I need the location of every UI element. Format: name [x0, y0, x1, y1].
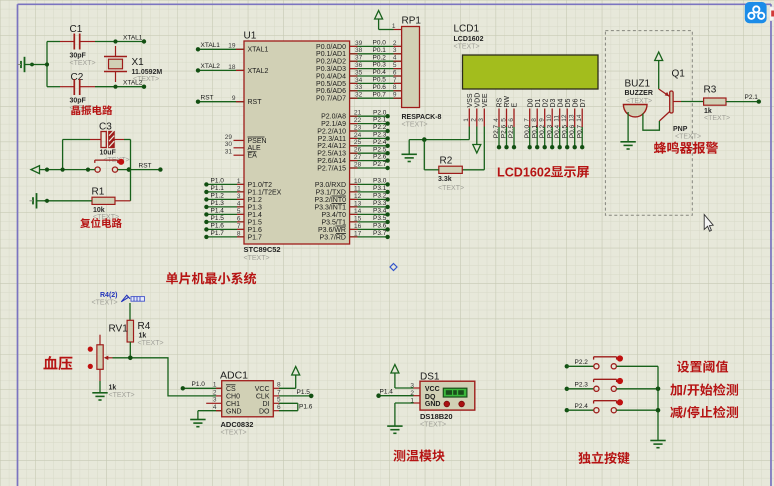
svg-text:15: 15: [354, 215, 362, 222]
svg-text:XTAL1: XTAL1: [248, 47, 269, 54]
svg-text:D2: D2: [542, 98, 549, 107]
LCD pin 1 VSS: [463, 93, 474, 126]
svg-text:DQ: DQ: [425, 394, 436, 401]
potentiometer RV1: [88, 324, 135, 399]
svg-text:D7: D7: [580, 98, 587, 107]
svg-text:P0.5: P0.5: [373, 77, 387, 84]
svg-text:RESPACK-8: RESPACK-8: [402, 114, 442, 121]
svg-text:P3.0/RXD: P3.0/RXD: [315, 182, 346, 189]
ground buzzer: [620, 142, 635, 149]
svg-text:9: 9: [393, 92, 397, 99]
wire VEE to R2: [462, 127, 484, 170]
svg-text:39: 39: [355, 40, 363, 47]
svg-text:RS: RS: [497, 97, 504, 107]
svg-text:P2.5: P2.5: [373, 146, 387, 153]
svg-text:P3.3: P3.3: [373, 200, 387, 207]
svg-text:14: 14: [354, 208, 362, 215]
svg-text:P1.3: P1.3: [211, 200, 225, 207]
svg-text:D4: D4: [557, 98, 564, 107]
svg-text:10uF: 10uF: [100, 150, 117, 157]
svg-text:P1.7: P1.7: [248, 234, 263, 241]
wire probe to R4: [129, 303, 131, 320]
svg-text:1: 1: [237, 178, 241, 185]
resistor pack RP1: [392, 16, 442, 129]
svg-text:/: /: [683, 383, 687, 398]
ground buttons: [650, 441, 665, 448]
svg-text:26: 26: [354, 147, 362, 154]
svg-text:P2.2: P2.2: [575, 359, 589, 366]
svg-text:P0.1: P0.1: [373, 47, 387, 54]
svg-text:P1.2: P1.2: [248, 197, 263, 204]
svg-text:XTAL1: XTAL1: [123, 35, 143, 42]
wire XTAL1 to U1 pin 19: [196, 42, 269, 54]
LCD pin 11 D4: [554, 98, 565, 149]
svg-text:P0.4: P0.4: [373, 69, 387, 76]
svg-text:ALE: ALE: [248, 145, 262, 152]
wire P1.3 to U1 pin 4: [204, 200, 262, 211]
svg-text:P3.5: P3.5: [373, 215, 387, 222]
svg-text:STC89C52: STC89C52: [244, 245, 281, 254]
wire P1.7 to U1 pin 8: [204, 230, 262, 241]
wire XTAL1 net: [47, 41, 144, 43]
svg-text:P0.3: P0.3: [546, 124, 553, 138]
svg-text:DS18B20: DS18B20: [420, 412, 453, 421]
dashed region buzzer: [605, 31, 692, 216]
wire P0.6 U1 pin 33 to RP1 pin 8: [316, 84, 402, 95]
svg-text:P3.7: P3.7: [373, 230, 387, 237]
svg-text:P0.2: P0.2: [373, 54, 387, 61]
svg-text:D1: D1: [535, 98, 542, 107]
svg-text:3: 3: [213, 397, 217, 404]
wire P3.1 U1 pin 11: [316, 185, 390, 196]
svg-text:XTAL2: XTAL2: [201, 63, 221, 70]
svg-text:P3.7/RD: P3.7/RD: [320, 234, 346, 241]
svg-text:D6: D6: [572, 98, 579, 107]
svg-text:12: 12: [354, 193, 362, 200]
DS18B20 buttons: [444, 401, 464, 407]
op-amp LCD1 LCD1602: [454, 24, 484, 51]
caption MCU minimal system: [166, 272, 256, 284]
LCD pin 13 D6: [569, 98, 580, 149]
svg-text:P2.0: P2.0: [373, 109, 387, 116]
svg-text:27: 27: [354, 154, 362, 161]
svg-text:P2.4: P2.4: [373, 139, 387, 146]
svg-text:P0.6/AD6: P0.6/AD6: [316, 88, 346, 95]
wire RV1 wiper to ADC CH0: [113, 356, 217, 396]
svg-text:LCD1602: LCD1602: [497, 166, 551, 180]
svg-text:33: 33: [355, 84, 363, 91]
svg-text:P2.1: P2.1: [373, 117, 387, 124]
svg-text:D0: D0: [527, 98, 534, 107]
svg-text:RW: RW: [504, 96, 511, 108]
ground terminal reset: [30, 193, 46, 208]
wire XTAL2 net: [47, 86, 144, 88]
caption buzzer alarm: [654, 142, 718, 154]
svg-text:EA: EA: [248, 153, 258, 160]
svg-text:RST: RST: [201, 95, 214, 102]
svg-text:9: 9: [232, 95, 236, 102]
svg-text:D3: D3: [550, 98, 557, 107]
svg-text:P1.6: P1.6: [248, 227, 263, 234]
wire P0.4 U1 pin 35 to RP1 pin 6: [316, 69, 402, 80]
wire P2.2 U1 pin 23: [317, 124, 390, 135]
node XTAL2: [113, 80, 146, 89]
svg-text:P1.1/T2EX: P1.1/T2EX: [248, 189, 282, 196]
svg-text:P3.1/TXD: P3.1/TXD: [316, 189, 346, 196]
svg-text:1k: 1k: [704, 108, 712, 115]
svg-text:30: 30: [225, 141, 233, 148]
svg-text:P2.3/A11: P2.3/A11: [318, 136, 346, 143]
LCD pin 6 E: [508, 103, 519, 150]
svg-text:DO: DO: [259, 408, 270, 415]
svg-text:11: 11: [354, 185, 361, 192]
svg-text:R4: R4: [138, 321, 151, 332]
svg-text:P2.0/A8: P2.0/A8: [321, 114, 346, 121]
ground LCD VSS: [402, 154, 417, 161]
mouse cursor: [704, 215, 713, 232]
power arrow buzzer: [655, 52, 663, 89]
svg-text:P2.1/A9: P2.1/A9: [321, 121, 346, 128]
svg-text:U1: U1: [244, 31, 257, 42]
wire RST to U1 pin 9: [196, 95, 262, 107]
wire ADC GND to ground: [198, 411, 222, 420]
caption crystal circuit: [71, 105, 112, 115]
svg-text:PNP: PNP: [673, 126, 688, 133]
svg-text:XTAL2: XTAL2: [248, 68, 269, 75]
svg-text:P2.2: P2.2: [373, 124, 387, 131]
svg-text:RV1: RV1: [109, 324, 129, 335]
svg-text:VCC: VCC: [255, 386, 270, 393]
wire P3.5 U1 pin 15: [321, 215, 389, 226]
wire R1 row: [44, 170, 131, 203]
svg-text:P2.6/A14: P2.6/A14: [317, 158, 346, 165]
svg-text:P0.4: P0.4: [554, 124, 561, 138]
ground terminal crystal: [18, 57, 34, 72]
LCD pin 5 RW: [500, 96, 511, 150]
caption LCD1602 display: [497, 166, 589, 180]
svg-text:P2.7: P2.7: [493, 124, 500, 138]
svg-text:RP1: RP1: [402, 16, 422, 27]
LCD pin 7 D0: [524, 98, 535, 149]
wire ADC VCC to power: [273, 375, 295, 388]
svg-text:31: 31: [225, 149, 233, 156]
svg-text:4: 4: [393, 55, 397, 62]
svg-text:21: 21: [354, 110, 362, 117]
wire P1.6 to U1 pin 7: [204, 222, 262, 233]
svg-text:P1.1: P1.1: [211, 185, 225, 192]
svg-text:P0.0: P0.0: [373, 40, 387, 47]
svg-text:5: 5: [237, 208, 241, 215]
caption blood pressure: [43, 356, 72, 370]
svg-text:<TEXT>: <TEXT>: [244, 255, 270, 262]
svg-text:P3.0: P3.0: [373, 178, 387, 185]
svg-text:LCD1602: LCD1602: [454, 36, 484, 43]
caption set threshold: [677, 360, 728, 372]
svg-text:P0.1/AD1: P0.1/AD1: [316, 51, 346, 58]
svg-text:P3.1: P3.1: [373, 185, 387, 192]
wire P1.5 to U1 pin 6: [204, 215, 262, 226]
svg-text:2: 2: [393, 40, 397, 47]
power arrow DS18B20: [391, 365, 399, 374]
svg-text:30pF: 30pF: [70, 53, 87, 60]
svg-text:CH0: CH0: [226, 394, 240, 401]
svg-text:VDD: VDD: [474, 93, 481, 108]
svg-text:30pF: 30pF: [70, 98, 87, 105]
wire P0.2 U1 pin 37 to RP1 pin 4: [316, 54, 402, 65]
LCD pin 14 D7: [576, 98, 587, 149]
svg-text:P3.6/WR: P3.6/WR: [318, 227, 346, 234]
svg-text:P2.6: P2.6: [501, 124, 508, 138]
svg-text:11.0592M: 11.0592M: [132, 69, 163, 76]
LCD pin 3 VEE: [478, 93, 489, 126]
wire P1.0 to U1 pin 1: [204, 177, 272, 188]
wire VSS to ground: [409, 127, 469, 155]
wire P2.7 U1 pin 28: [317, 161, 390, 172]
svg-text:RST: RST: [248, 99, 263, 106]
svg-text:P0.5/AD5: P0.5/AD5: [316, 81, 346, 88]
svg-text:3: 3: [393, 47, 397, 54]
wire P1.4 to DS DQ: [376, 389, 420, 398]
svg-text:P1.0: P1.0: [211, 177, 225, 184]
LCD pin 8 D1: [531, 98, 542, 149]
resistor R4: [127, 320, 163, 358]
svg-text:P3.3/INT1: P3.3/INT1: [314, 204, 346, 211]
pin ALE U1 pin 30: [225, 141, 261, 152]
svg-text:R3: R3: [704, 85, 717, 96]
wire P2.0 U1 pin 21: [321, 109, 390, 120]
svg-text:ADC1: ADC1: [220, 370, 248, 382]
power VCC arrow RP1: [375, 11, 394, 30]
svg-text:P0.0/AD0: P0.0/AD0: [316, 44, 346, 51]
svg-text:1k: 1k: [109, 385, 117, 392]
svg-text:XTAL2: XTAL2: [123, 80, 143, 87]
button P2.2: [565, 355, 658, 369]
pin ADC CH0: [216, 395, 222, 397]
svg-text:GND: GND: [226, 408, 242, 415]
svg-text:P2.2/A10: P2.2/A10: [317, 128, 346, 135]
svg-text:PSEN: PSEN: [248, 138, 267, 145]
probe R4(2): [92, 292, 145, 307]
wire P2.5 U1 pin 26: [317, 146, 390, 157]
svg-text:P0.7/AD7: P0.7/AD7: [316, 96, 346, 103]
svg-text:1: 1: [392, 23, 396, 30]
wire P1.2 to U1 pin 3: [204, 192, 262, 203]
resistor R1: [92, 187, 131, 222]
transistor Q1 PNP: [659, 69, 701, 141]
LCD pin 2 VDD: [471, 93, 482, 127]
svg-text:1k: 1k: [139, 333, 147, 340]
svg-text:38: 38: [355, 47, 363, 54]
svg-text:P2.6: P2.6: [373, 154, 387, 161]
caption temperature module: [393, 449, 444, 461]
svg-text:25: 25: [354, 139, 362, 146]
svg-text:R1: R1: [92, 187, 105, 198]
caption dec stop: [670, 405, 738, 420]
pin ADC CH1 stub: [206, 402, 222, 404]
svg-text:P0.7: P0.7: [576, 124, 583, 138]
svg-text:BUZ1: BUZ1: [625, 79, 651, 90]
svg-text:7: 7: [393, 77, 397, 84]
svg-text:P1.4: P1.4: [248, 212, 263, 219]
op-amp ADC1 ADC0832: [213, 370, 281, 437]
svg-text:P1.0: P1.0: [192, 381, 206, 388]
svg-text:P2.5/A13: P2.5/A13: [317, 151, 346, 158]
svg-text:LCD1: LCD1: [454, 24, 480, 35]
svg-text:P1.3: P1.3: [248, 204, 263, 211]
svg-text:P2.5: P2.5: [508, 124, 515, 138]
svg-text:P0.6: P0.6: [569, 124, 576, 138]
wire ADC DI DO to P1.6: [273, 403, 312, 410]
LCD screen: [463, 55, 599, 89]
wire P3.6 U1 pin 16: [318, 223, 390, 234]
svg-text:P0.2/AD2: P0.2/AD2: [316, 59, 346, 66]
svg-text:10: 10: [354, 178, 362, 185]
svg-text:P1.0/T2: P1.0/T2: [248, 182, 273, 189]
svg-text:19: 19: [228, 43, 236, 50]
wire DS GND to ground: [395, 403, 420, 426]
svg-text:XTAL1: XTAL1: [201, 42, 221, 49]
node RST: [139, 162, 152, 169]
svg-text:8: 8: [393, 84, 397, 91]
svg-text:Q1: Q1: [672, 69, 686, 80]
wire P2.4 U1 pin 25: [317, 139, 390, 150]
svg-text:P0.2: P0.2: [539, 124, 546, 138]
wire P0.1 U1 pin 38 to RP1 pin 3: [316, 47, 402, 58]
svg-text:P3.5/T1: P3.5/T1: [321, 219, 346, 226]
wire C3 branch: [63, 140, 131, 170]
svg-text:C1: C1: [70, 24, 83, 35]
svg-text:2: 2: [213, 389, 217, 396]
svg-text:35: 35: [355, 69, 363, 76]
svg-text:36: 36: [355, 62, 363, 69]
ground ADC: [190, 420, 205, 427]
svg-text:ADC0832: ADC0832: [221, 420, 254, 429]
pin EA U1 pin 31: [225, 149, 257, 160]
power arrow left: [31, 166, 40, 174]
svg-text:<TEXT>: <TEXT>: [221, 430, 247, 437]
svg-text:P2.1: P2.1: [745, 94, 759, 101]
wire P1.1 to U1 pin 2: [204, 185, 281, 196]
svg-text:X1: X1: [132, 57, 145, 68]
svg-text:P1.5: P1.5: [248, 219, 263, 226]
wire P3.3 U1 pin 13: [314, 200, 389, 211]
svg-text:P3.2/INT0: P3.2/INT0: [314, 197, 346, 204]
wire button common: [656, 366, 661, 440]
svg-text:<TEXT>: <TEXT>: [138, 340, 164, 347]
svg-text:29: 29: [225, 134, 233, 141]
svg-text:34: 34: [355, 77, 363, 84]
svg-text:DI: DI: [263, 401, 270, 408]
wire P2.6 U1 pin 27: [317, 154, 390, 165]
svg-text:P1.5: P1.5: [297, 389, 311, 396]
svg-text:13: 13: [354, 200, 362, 207]
svg-text:D5: D5: [565, 98, 572, 107]
buzzer BUZ1: [623, 79, 652, 117]
svg-text:P2.7: P2.7: [373, 161, 387, 168]
capacitor C2: [60, 72, 96, 112]
wire P0.3 U1 pin 36 to RP1 pin 5: [316, 62, 402, 73]
svg-text:<TEXT>: <TEXT>: [109, 392, 135, 399]
wire left branch: [30, 42, 49, 87]
wire RV1 to ground: [99, 381, 101, 393]
svg-text:28: 28: [354, 161, 362, 168]
svg-text:GND: GND: [425, 401, 441, 408]
svg-text:<TEXT>: <TEXT>: [704, 115, 730, 122]
resistor R3: [704, 85, 731, 123]
wire P3.7 U1 pin 17: [320, 230, 390, 241]
svg-text:5: 5: [393, 62, 397, 69]
ground RV1: [92, 393, 107, 400]
svg-text:R2: R2: [440, 156, 453, 167]
wire P3.0 U1 pin 10: [315, 178, 390, 189]
svg-text:<TEXT>: <TEXT>: [438, 185, 464, 192]
svg-text:32: 32: [355, 92, 363, 99]
svg-text:16: 16: [354, 223, 362, 230]
ground DS18B20: [387, 426, 402, 433]
svg-text:P1.6: P1.6: [299, 403, 313, 410]
button P2.4: [565, 399, 658, 413]
pin PSEN U1 pin 29: [225, 134, 267, 145]
op-amp DS1 DS18B20: [410, 371, 474, 428]
wire P1.4 to U1 pin 5: [204, 207, 262, 218]
crystal X1: [104, 46, 162, 83]
svg-text:P0.0: P0.0: [524, 124, 531, 138]
svg-text:P1.2: P1.2: [211, 192, 225, 199]
wire P0.5 U1 pin 34 to RP1 pin 7: [316, 77, 402, 88]
overlay icon sliver: [769, 7, 774, 21]
svg-text:22: 22: [354, 117, 362, 124]
wire ADC CLK to P1.5: [273, 389, 313, 398]
svg-text:VSS: VSS: [467, 93, 474, 107]
button RST: [95, 157, 130, 172]
svg-text:R4(2): R4(2): [100, 292, 118, 299]
caption independent keys: [578, 452, 629, 464]
svg-text:<TEXT>: <TEXT>: [92, 299, 118, 306]
svg-text:4: 4: [237, 200, 241, 207]
svg-text:P1.7: P1.7: [211, 230, 225, 237]
svg-text:17: 17: [354, 230, 362, 237]
svg-text:P3.6: P3.6: [373, 223, 387, 230]
resistor R2: [438, 156, 464, 193]
wire P3.2 U1 pin 12: [314, 193, 389, 204]
svg-text:3.3k: 3.3k: [438, 176, 452, 183]
svg-text:<TEXT>: <TEXT>: [70, 60, 96, 67]
wire XTAL2 to U1 pin 18: [196, 63, 269, 75]
svg-text:E: E: [512, 103, 519, 108]
svg-text:P0.6: P0.6: [373, 84, 387, 91]
svg-text:<TEXT>: <TEXT>: [454, 44, 480, 51]
svg-text:7: 7: [237, 223, 241, 230]
capacitor C3: [90, 122, 124, 157]
svg-text:37: 37: [355, 55, 363, 62]
svg-text:6: 6: [237, 215, 241, 222]
wire P0.7 U1 pin 32 to RP1 pin 9: [316, 91, 402, 102]
op-amp U1 body STC89C52: [244, 31, 350, 262]
svg-text:/: /: [683, 405, 687, 420]
svg-text:6: 6: [393, 69, 397, 76]
svg-text:P0.4/AD4: P0.4/AD4: [316, 73, 346, 80]
DS18B20 display: [443, 388, 467, 397]
svg-text:P1.4: P1.4: [380, 389, 394, 396]
wire R2 to ground junction: [424, 140, 439, 170]
svg-text:2: 2: [237, 185, 241, 192]
svg-text:P3.2: P3.2: [373, 193, 387, 200]
svg-text:P1.5: P1.5: [211, 215, 225, 222]
svg-text:18: 18: [228, 64, 236, 71]
wire R3 to P2.1: [726, 94, 761, 104]
wire buzzer left to ground: [627, 112, 629, 142]
svg-text:P0.1: P0.1: [531, 124, 538, 138]
